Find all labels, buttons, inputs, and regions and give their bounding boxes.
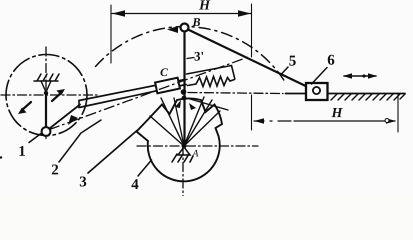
dimension H top: left extension line <box>110 5 112 63</box>
leader 6 <box>312 68 328 85</box>
centerline vertical left wheel <box>45 47 47 141</box>
dimension H top: line <box>112 13 251 15</box>
arrowhead on arc left of B <box>167 26 178 33</box>
svg-text:2: 2 <box>51 162 59 178</box>
leader 2 <box>59 120 101 162</box>
svg-text:3': 3' <box>194 48 204 63</box>
dimension H top: arrowheads <box>112 10 251 16</box>
svg-text:A: A <box>191 148 199 159</box>
svg-text:6: 6 <box>327 53 335 69</box>
cam spoke b <box>161 98 184 146</box>
slider 6 pin joint <box>313 87 320 94</box>
spring <box>188 77 235 87</box>
reciprocation double arrow <box>344 75 376 77</box>
svg-text:H: H <box>331 106 344 121</box>
centerline vertical below A <box>182 146 184 196</box>
cam spoke d <box>184 97 204 146</box>
leader 1 <box>29 134 41 143</box>
crank link O1 to pin <box>45 95 47 129</box>
centerline horizontal left wheel <box>1 94 97 96</box>
svg-text:4: 4 <box>131 177 139 193</box>
guide hatching <box>331 94 405 100</box>
crank circle 1 (dash-dot pitch circle) <box>6 55 87 136</box>
dimension H top: right extension line <box>251 4 253 57</box>
pivot O1 pin <box>44 91 48 95</box>
svg-text:B: B <box>192 15 201 29</box>
leader 4 <box>138 160 152 176</box>
slider C box <box>155 78 180 94</box>
crank pin joint <box>42 127 51 136</box>
pivot A triangle <box>178 147 190 155</box>
slider 6 box <box>306 83 328 100</box>
cam spoke e <box>184 100 212 146</box>
fixed pivot O1 triangle <box>41 81 51 92</box>
small arrow at central joint left <box>175 100 181 108</box>
leader 3 <box>88 131 137 174</box>
velocity arrow upper-right <box>52 92 62 101</box>
dimension H bottom: right extension line <box>397 94 399 132</box>
dimension H bottom: line dash-dot <box>254 120 395 122</box>
cam spoke f <box>184 111 220 146</box>
link 3 vertical B to A <box>183 31 185 143</box>
joint B <box>181 24 189 32</box>
svg-text:H: H <box>198 0 211 14</box>
cam spoke a <box>150 116 184 146</box>
small arrow at central joint right <box>189 103 196 110</box>
trajectory arc of point B (dash-dot) <box>96 27 284 80</box>
dimension H bottom: left extension line <box>251 95 253 130</box>
fixed pivot O1 hatching <box>34 74 59 81</box>
svg-text:5: 5 <box>289 54 297 70</box>
central joint pin blob <box>181 89 187 95</box>
rotation arrowhead on crank circle <box>68 115 78 125</box>
rod bar left cap <box>78 101 80 108</box>
velocity arrow lower-left <box>22 102 31 110</box>
pawl link from central joint <box>190 99 228 110</box>
centerline horizontal through spring to slider <box>188 93 283 94</box>
pivot A hatching <box>172 154 193 162</box>
rod bar bottom edge <box>79 85 186 108</box>
rod centerline dash-dot <box>50 56 252 130</box>
link 2 thin rod <box>50 105 81 129</box>
leader 3prime <box>187 58 194 59</box>
rod bar (link 2 body) top edge <box>79 80 185 101</box>
dimension H bottom: arrowheads <box>254 118 396 124</box>
centerline horizontal through A <box>137 145 258 147</box>
paper specks <box>0 156 2 158</box>
leader 5 <box>281 67 288 75</box>
cam spoke c <box>174 98 184 146</box>
slider 6 guide line <box>286 93 406 95</box>
svg-text:3: 3 <box>79 174 87 190</box>
link 5 B to slider 6 <box>188 30 314 91</box>
pivot A pin <box>182 144 187 149</box>
spring bracket <box>187 66 235 79</box>
cam 4 outline <box>137 98 223 181</box>
svg-text:C: C <box>160 67 168 79</box>
svg-text:1: 1 <box>18 144 26 160</box>
